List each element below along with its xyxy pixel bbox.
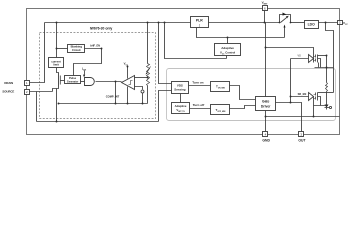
node pad circle driver2 [329,106,331,108]
wire source loop down [36,92,38,122]
block blanking circuit [68,45,85,53]
junction rail / adaptive VCC return [164,22,166,24]
block adaptive VCC control [215,44,241,56]
wire VDS sensing to adaptive threshold [180,94,182,103]
wire blanking input [57,48,68,50]
junction blanking corner [101,48,103,50]
wire bottom bus [59,103,148,105]
wire adaptive threshold to turn off [190,108,211,110]
hysteresis symbol [129,81,133,85]
wire driver1 output stub [318,59,321,68]
wire pulse generator output to AND gate [81,81,85,83]
wire pad to bottom bus [142,93,144,104]
logic gate AND [85,78,95,86]
wire driver2 NMOS source to ground rail [313,101,315,117]
wire driver1 source rail [315,67,334,69]
wire state driver output to OUT pin [276,103,302,132]
wire rail PLR to switch [209,22,280,24]
arrow I_VDS into AND gate [83,71,85,78]
resistor R2 gate pull [326,83,328,92]
wire internal ground rail [266,116,340,118]
node VCC pullup bullet [127,66,129,68]
svg-text:SOURCE: SOURCE [2,90,14,94]
svg-text:SR_EN: SR_EN [298,92,307,96]
junction driver output / riser [290,102,292,104]
switch S1 bypass loop [280,15,291,23]
svg-text:Generator: Generator [67,80,78,83]
arrow divider variable tap [146,67,151,75]
junction source line / bus [58,103,60,105]
svg-text:Adaptive: Adaptive [221,46,234,50]
junction comparator ground / bus [127,103,129,105]
junction driver riser / SR_EN wire [290,96,292,98]
wire mosfet source to rail [57,87,59,122]
op-amp driver1 buffer [309,55,314,63]
pin 3 OUT [298,132,306,143]
wire VDS sense upper feed [159,23,172,84]
wire comparator minus input to pad [135,87,143,90]
wire source bottom rail [37,121,159,123]
wire driver1 NMOS source [318,63,320,68]
wire driver1 input [291,58,309,60]
svg-text:LDO: LDO [308,23,316,27]
wire driver2 input SR_EN [291,96,309,98]
junction switch left contact [279,22,281,24]
svg-text:limit: limit [53,63,59,67]
wire driver2 gate node [313,97,315,101]
switch S1 lever arrowhead [286,16,289,19]
group box (SR control section, light gray rounded) [167,69,336,121]
block T_OFF_MIN [211,105,230,115]
junction rail / sense divider [147,22,149,24]
diode D1 [325,105,329,110]
wire resistor to diode [326,92,328,105]
wire VBST pin drop [264,11,266,23]
pin 5 VCC [338,21,349,26]
svg-text:Turn on: Turn on [192,81,203,85]
junction divider mid tap [147,77,149,79]
wire current limit to mosfet drain [57,68,59,74]
chip boundary box [27,9,340,135]
wire VBST supply down to state driver [265,23,267,97]
junction driver1 supply / resistor chain [326,55,328,57]
wire T_off to state driver [230,106,256,109]
wire divider bottom [147,86,149,104]
svg-text:Driver: Driver [261,104,271,108]
svg-text:VG: VG [297,54,301,57]
wire branch into adaptive VCC control [227,38,229,44]
svg-text:Sensing: Sensing [174,87,185,91]
svg-text:OUT: OUT [298,139,306,143]
junction PLR wire / adaptive VCC control [227,37,229,39]
svg-text:COMP_INT: COMP_INT [106,94,120,98]
wire adaptive VCC control return [165,23,227,59]
wire LDO output to VCC pin [319,22,338,24]
junction GND drop / ground rail [265,116,267,118]
wire rail switch to LDO [291,22,305,24]
resistor R1 sense divider [147,64,150,86]
junction blanking tap [56,48,58,50]
junction comparator output tap [115,81,117,83]
wire pull resistor chain top [326,56,328,83]
block current limit [49,58,64,68]
transistor pair U4 driver2 MOSFETs [314,93,318,101]
svg-text:PLR: PLR [196,19,203,23]
wire SOURCE pin [30,91,53,93]
wire AND output to comparator [96,81,122,83]
svg-text:Pulse: Pulse [69,76,77,80]
node pad circle [141,90,144,93]
op-amp U2 comparator [122,76,135,90]
pin 4 GND [262,132,270,143]
junction resistor chain / driver1 source rail [326,67,328,69]
junction rail / VBST pin [264,22,266,24]
switch S1 lever [281,17,288,23]
transistor pair U3 driver1 MOSFETs [314,55,318,63]
block LDO [305,21,319,29]
wire mosfet gate to pulse generator [60,80,65,82]
pin 1 DRAIN [4,81,29,86]
arrow switch control [284,25,286,28]
wire VDS sensing to turn on [189,85,211,87]
junction LDO output tap [325,22,327,24]
wire T_on to state driver [230,86,256,100]
wire PLR output to switch control [197,28,285,38]
op-amp driver2 buffer [309,93,314,101]
wire DRAIN pin to riser [30,23,45,83]
svg-text:Turn off: Turn off [193,103,205,107]
wire switch control riser [284,27,286,38]
arrow switch current direction [283,13,287,16]
wire sense divider top [147,23,149,64]
svg-text:GND: GND [262,139,270,143]
pin 6 VBST [262,0,269,10]
junction driver2 source / ground rail [313,116,315,118]
wire driver2 output [318,97,321,106]
wire comparator power from VCC [127,67,129,79]
wire driver1 gate feed [266,48,314,63]
svg-text:bHF_EN: bHF_EN [90,45,100,48]
junction rail / VDS sense feed [158,22,160,24]
wire pad stub [329,107,330,109]
block gate driver [256,97,276,111]
wire adaptive VCC control output stub [226,56,228,59]
wire LDO feed jog [326,23,334,93]
dashed box iW676-30 only section [40,33,156,119]
wire comparator plus input [135,77,148,79]
wire top drain rail [45,22,191,24]
transistor Q1 sense MOSFET [59,74,61,87]
block T_ON_MIN [211,82,230,92]
wire state driver ground to GND pin [265,111,267,132]
wire driver1 supply rail [318,55,327,57]
svg-text:iW676-30 only: iW676-30 only [90,26,113,30]
block PLR [191,17,209,28]
wire comparator ground [127,87,129,104]
wire blanking output to pulse generator [74,49,102,76]
junction VBST drop / driver1 gate wire [265,47,267,49]
wire driver2 output lower run [314,105,328,106]
wire gate-source tie [53,89,57,92]
wire VDS sense lower feed [159,91,172,122]
svg-text:Gate: Gate [262,100,269,104]
pin 2 SOURCE [2,90,29,95]
block VDS sensing [172,82,189,94]
junction rail / current-limit drop [56,22,58,24]
block pulse generator [65,76,81,84]
junction mosfet source / source rail [56,121,58,123]
svg-text:Circuit: Circuit [72,48,81,52]
wire current limit feed [56,23,58,58]
junction pad stub / bus [142,103,144,105]
junction bus / comp-int riser [115,103,117,105]
wire driver feedback riser [290,59,292,103]
svg-text:DRAIN: DRAIN [4,81,13,85]
junction switch right contact [290,22,292,24]
block adaptive threshold [172,103,190,114]
wire COMP_INT tap [115,82,117,104]
wire driver2 supply [318,92,334,94]
